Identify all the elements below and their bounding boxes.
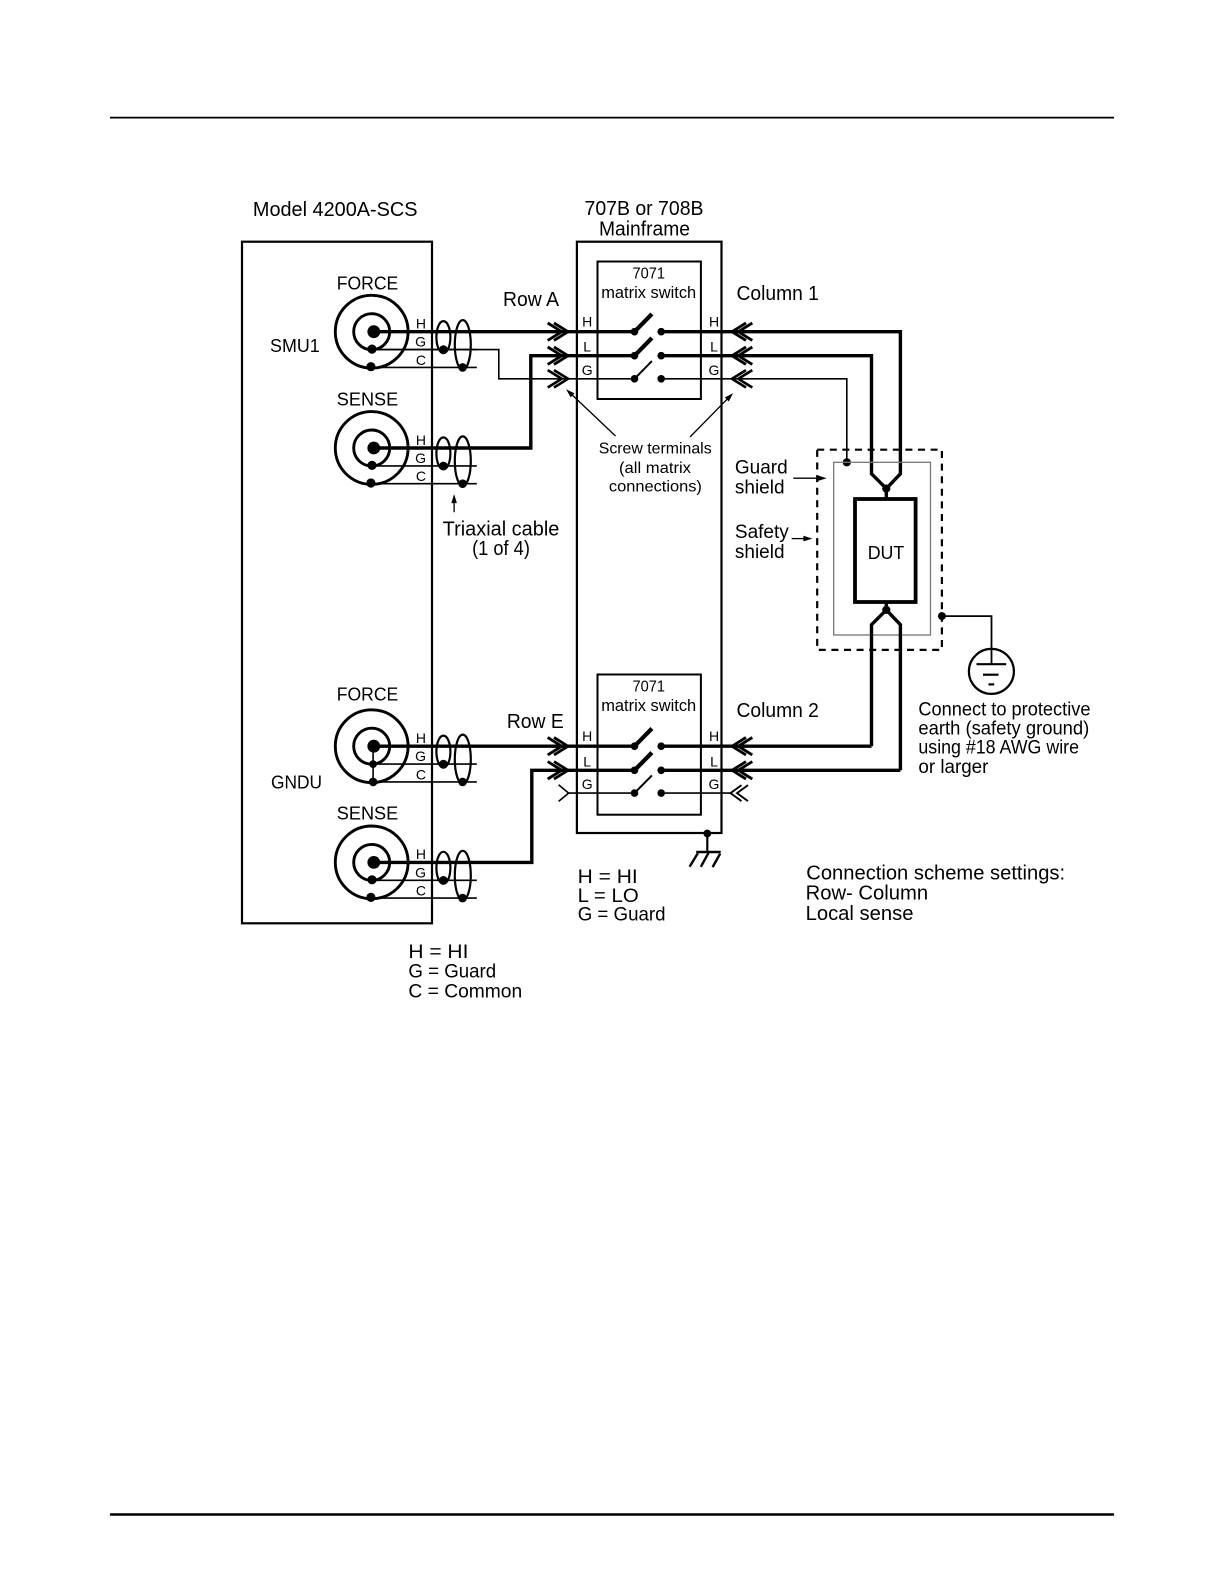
- legend: H/L/G definitions: [578, 867, 666, 926]
- svg-text:G: G: [582, 776, 593, 792]
- Guard shield callout text: [735, 458, 788, 499]
- svg-text:G: G: [709, 776, 720, 792]
- svg-text:Connection scheme settings:: Connection scheme settings:: [806, 862, 1065, 884]
- node: safety shield earth dot: [938, 612, 946, 620]
- svg-text:or larger: or larger: [918, 757, 989, 778]
- chassis ground symbol: [690, 834, 721, 868]
- wire: matrix E-G stub right: [661, 792, 730, 794]
- svg-text:L: L: [583, 753, 591, 769]
- Screw terminals note text: [599, 440, 712, 495]
- svg-text:7071: 7071: [632, 266, 665, 283]
- Model 4200A-SCS enclosure box: [242, 242, 432, 924]
- Safety shield callout arrow: [792, 536, 813, 542]
- svg-text:Connect to protective: Connect to protective: [918, 699, 1090, 720]
- svg-text:GNDU: GNDU: [271, 773, 322, 793]
- connector SMU1-FORCE: cable shield ellipses: [436, 320, 470, 369]
- Column 1 screw-terminal chevrons H: [732, 323, 752, 340]
- Column 2 screw-terminal chevrons L: [732, 762, 752, 779]
- svg-text:matrix switch: matrix switch: [601, 696, 696, 715]
- svg-text:L: L: [710, 753, 718, 769]
- legend: H/G/C definitions: [408, 942, 522, 1002]
- svg-text:using #18 AWG wire: using #18 AWG wire: [918, 738, 1079, 759]
- matrix switch 1 (Row A): switch L contacts and lever: [631, 338, 665, 360]
- Triaxial cable arrow: [451, 494, 457, 512]
- connector SMU1-SENSE: G wire stub: [374, 465, 477, 467]
- svg-text:C = Common: C = Common: [408, 981, 522, 1002]
- matrix switch 2 (Row E): switch G contacts and lever: [631, 775, 665, 796]
- svg-text:Model 4200A-SCS: Model 4200A-SCS: [253, 199, 418, 221]
- safety shield (dashed box): [817, 450, 942, 650]
- connector GNDU-FORCE: FORCE label: [337, 684, 399, 704]
- svg-text:FORCE: FORCE: [337, 273, 399, 293]
- connector GNDU-SENSE: common pin dot: [366, 893, 375, 902]
- DUT label: [868, 543, 905, 563]
- connector GNDU-FORCE: cable shield ellipses: [436, 735, 470, 784]
- connector GNDU-FORCE: shield junction dots: [439, 760, 467, 786]
- connector GNDU-SENSE: C wire stub: [374, 897, 477, 899]
- page bottom rule: [110, 1513, 1114, 1515]
- Triaxial cable note text: [443, 518, 560, 559]
- connector SMU1-SENSE: SENSE label: [337, 390, 399, 410]
- Column 1 screw-terminal chevrons G: [732, 370, 752, 387]
- svg-text:7071: 7071: [632, 679, 665, 696]
- svg-text:earth (safety ground): earth (safety ground): [918, 718, 1089, 739]
- svg-text:shield: shield: [735, 542, 785, 563]
- svg-text:Screw terminals: Screw terminals: [599, 440, 712, 457]
- Row E screw-terminal chevrons L: [548, 762, 568, 779]
- svg-text:connections): connections): [609, 479, 702, 496]
- svg-text:SMU1: SMU1: [270, 336, 320, 356]
- Row E screw-terminal chevron G (single): [559, 785, 569, 802]
- connector GNDU-SENSE: SENSE label: [337, 803, 399, 823]
- 707B or 708B Mainframe title: [585, 198, 704, 240]
- Row E screw-terminal chevrons H: [548, 738, 568, 755]
- legend: connection scheme settings: [806, 862, 1066, 925]
- GNDU label: [271, 773, 322, 793]
- connector GNDU-FORCE: H/G/C pin labels: [415, 730, 426, 782]
- svg-text:G: G: [582, 362, 593, 378]
- svg-text:Guard: Guard: [735, 458, 788, 479]
- wire: matrix A-G to guard shield (Column 1 G): [661, 379, 847, 463]
- wire: GNDU FORCE H to matrix E-H: [374, 745, 635, 748]
- connector SMU1-FORCE: guard pin dot: [367, 345, 376, 354]
- connector SMU1-SENSE: guard pin dot: [367, 461, 376, 470]
- svg-text:C: C: [416, 766, 426, 782]
- svg-text:C: C: [416, 883, 426, 899]
- matrix switch 2 (Row E): box: [598, 675, 701, 815]
- wire: SMU1 FORCE G bend to matrix A-G: [372, 350, 635, 379]
- matrix switch 2 (Row E): title: [601, 679, 696, 716]
- svg-text:H: H: [416, 432, 426, 448]
- svg-text:G = Guard: G = Guard: [578, 905, 666, 926]
- connector GNDU-FORCE: G wire stub: [374, 763, 477, 765]
- connector GNDU-SENSE: shield junction dots: [439, 876, 467, 902]
- svg-text:L: L: [583, 339, 591, 355]
- DUT box: [855, 499, 916, 602]
- Column 2 screw-terminal chevrons G (thin): [731, 785, 749, 801]
- wire: DUT bottom to Column 2 L leg: [886, 610, 900, 770]
- svg-text:Row- Column: Row- Column: [806, 883, 929, 905]
- wire: matrix E-L to DUT leg (Column 2 L): [661, 769, 900, 772]
- svg-text:(all matrix: (all matrix: [619, 460, 691, 477]
- svg-text:Local sense: Local sense: [806, 903, 914, 925]
- svg-text:G = Guard: G = Guard: [408, 962, 496, 983]
- svg-text:H: H: [582, 728, 592, 744]
- svg-text:G: G: [415, 334, 426, 350]
- svg-text:G: G: [415, 450, 426, 466]
- Row A screw-terminal chevrons G: [548, 370, 568, 387]
- matrix switch 2 (Row E): right terminal labels H L G: [709, 728, 720, 792]
- connector GNDU-SENSE: guard pin dot: [367, 875, 376, 884]
- Row A screw-terminal chevrons L: [548, 347, 568, 364]
- Screw terminals arrow left: [566, 389, 615, 436]
- connector GNDU-FORCE: internal link wire H-to-C: [369, 746, 378, 786]
- connector SMU1-SENSE: C wire stub: [374, 483, 477, 485]
- Column 2 label: [737, 700, 819, 722]
- matrix switch 1 (Row A): box: [598, 262, 701, 400]
- node: guard shield connection dot: [843, 458, 851, 466]
- guard shield (thin box): [834, 462, 931, 635]
- mainframe enclosure box: [577, 242, 722, 833]
- node: mainframe chassis ground dot: [703, 830, 711, 838]
- Safety shield callout text: [735, 522, 789, 563]
- svg-text:Row E: Row E: [507, 711, 564, 733]
- svg-text:matrix switch: matrix switch: [601, 283, 696, 302]
- svg-text:G: G: [415, 864, 426, 880]
- svg-text:H: H: [709, 728, 719, 744]
- svg-text:(1 of 4): (1 of 4): [472, 538, 530, 560]
- svg-text:Row A: Row A: [503, 289, 560, 311]
- svg-text:H = HI: H = HI: [408, 942, 468, 963]
- Column 1 label: [737, 283, 819, 305]
- svg-text:H = HI: H = HI: [578, 867, 638, 888]
- page top rule: [110, 117, 1114, 119]
- Screw terminals arrow right: [690, 393, 733, 437]
- wire: matrix A-H to DUT top (Column 1 H): [661, 332, 900, 489]
- matrix switch 1 (Row A): switch G contacts and lever: [631, 361, 665, 383]
- wire: safety shield to protective earth: [942, 616, 992, 650]
- svg-text:H: H: [709, 314, 719, 330]
- connector GNDU-FORCE: C wire stub: [374, 781, 477, 783]
- matrix switch 1 (Row A): title: [601, 266, 696, 303]
- protective earth note text: [918, 699, 1090, 778]
- connector GNDU-SENSE: circles: [335, 826, 408, 899]
- connector SMU1-FORCE: circles: [335, 295, 408, 368]
- connector SMU1-SENSE: shield junction dots: [439, 462, 467, 488]
- connector SMU1-FORCE: C wire stub: [374, 366, 477, 368]
- matrix switch 1 (Row A): left terminal labels H L G: [582, 314, 593, 378]
- svg-text:FORCE: FORCE: [337, 684, 399, 704]
- connector GNDU-FORCE: circles: [335, 710, 408, 783]
- connector SMU1-SENSE: cable shield ellipses: [436, 436, 470, 485]
- wire: SMU1 FORCE H to matrix A-H: [374, 330, 635, 333]
- svg-text:Mainframe: Mainframe: [599, 218, 690, 240]
- connector SMU1-FORCE: shield junction dots: [439, 345, 467, 371]
- Guard shield callout arrow: [793, 475, 826, 481]
- connector SMU1-SENSE: common pin dot: [366, 478, 375, 487]
- matrix switch 2 (Row E): left terminal labels H L G: [582, 728, 593, 792]
- node: DUT bottom junction dot: [882, 606, 890, 614]
- svg-text:H: H: [582, 314, 592, 330]
- wire: DUT bottom stub: [885, 601, 888, 612]
- Row A label: [503, 289, 560, 311]
- protective earth symbol: [969, 649, 1014, 694]
- Column 1 screw-terminal chevrons L: [732, 347, 752, 364]
- svg-text:C: C: [416, 352, 426, 368]
- svg-text:G: G: [709, 362, 720, 378]
- matrix switch 1 (Row A): right terminal labels H L G: [709, 314, 720, 378]
- matrix switch 1 (Row A): switch H contacts and lever: [631, 314, 665, 336]
- svg-text:H: H: [416, 846, 426, 862]
- wire: GNDU SENSE H up to matrix E-L: [374, 770, 635, 862]
- SMU1 label: [270, 336, 320, 356]
- connector SMU1-SENSE: circles: [335, 412, 408, 485]
- connector GNDU-SENSE: cable shield ellipses: [436, 851, 470, 900]
- wire: DUT bottom to Column 2 H leg: [872, 610, 887, 746]
- connector GNDU-SENSE: H/G/C pin labels: [415, 846, 426, 898]
- connector SMU1-FORCE: H/G/C pin labels: [415, 316, 426, 368]
- wire: matrix E-G stub: [569, 792, 635, 794]
- connector GNDU-SENSE: G wire stub: [374, 879, 477, 881]
- connector SMU1-FORCE: FORCE label: [337, 273, 399, 293]
- svg-text:SENSE: SENSE: [337, 390, 399, 410]
- svg-text:707B or 708B: 707B or 708B: [585, 198, 704, 220]
- Column 2 screw-terminal chevrons H: [732, 738, 752, 755]
- wire: matrix A-L to DUT top (Column 1 L): [661, 356, 886, 489]
- svg-text:H: H: [416, 730, 426, 746]
- Row E label: [507, 711, 564, 733]
- matrix switch 2 (Row E): switch L contacts and lever: [631, 753, 665, 775]
- svg-text:C: C: [416, 468, 426, 484]
- svg-text:Column 1: Column 1: [737, 283, 819, 305]
- svg-text:L: L: [710, 339, 718, 355]
- svg-text:Safety: Safety: [735, 522, 789, 543]
- svg-text:G: G: [415, 748, 426, 764]
- wire: matrix E-H to DUT leg (Column 2 H): [661, 745, 871, 748]
- wire: junction stub into DUT top: [885, 486, 888, 500]
- svg-text:shield: shield: [735, 478, 785, 499]
- Model 4200A-SCS title: [253, 199, 418, 221]
- svg-text:DUT: DUT: [868, 543, 905, 563]
- svg-text:H: H: [416, 316, 426, 332]
- matrix switch 2 (Row E): switch H contacts and lever: [631, 729, 665, 751]
- connector SMU1-FORCE: G wire stub: [374, 349, 477, 351]
- connector SMU1-SENSE: H/G/C pin labels: [415, 432, 426, 484]
- svg-text:SENSE: SENSE: [337, 803, 399, 823]
- Row A screw-terminal chevrons H: [548, 323, 568, 340]
- node: DUT top junction dot: [882, 485, 890, 493]
- connector SMU1-FORCE: common pin dot: [366, 362, 375, 371]
- wire: SMU1 SENSE H up to matrix A-L: [374, 356, 635, 448]
- svg-text:Column 2: Column 2: [737, 700, 819, 722]
